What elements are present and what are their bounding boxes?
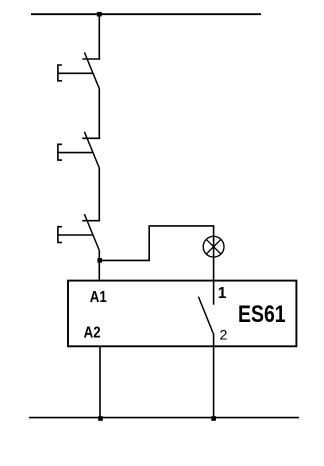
svg-text:2: 2 [220, 327, 228, 343]
svg-text:A2: A2 [84, 325, 101, 342]
svg-text:1: 1 [218, 285, 227, 302]
svg-text:A1: A1 [90, 289, 107, 306]
svg-text:ES61: ES61 [238, 301, 286, 328]
